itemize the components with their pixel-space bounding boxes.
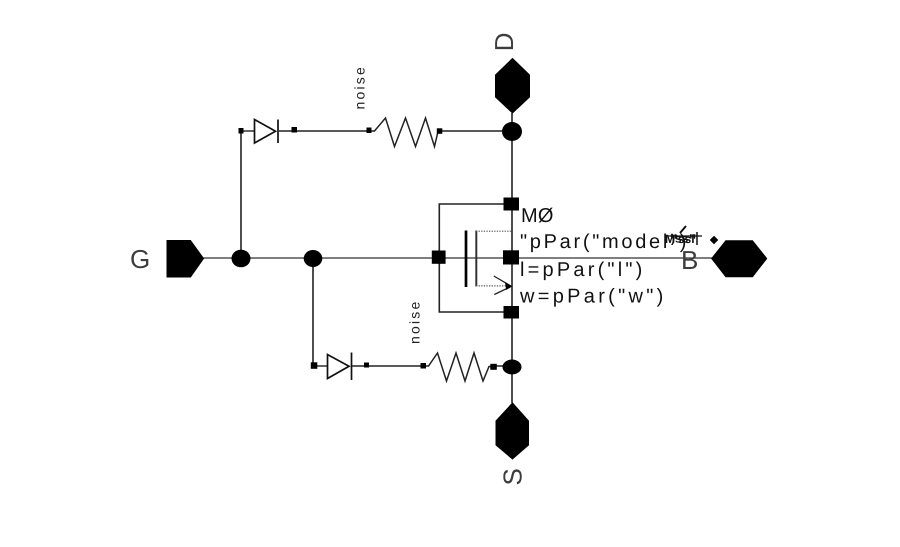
svg-text:)ss: )ss [671,232,689,246]
svg-text:D: D [489,32,519,51]
svg-text:l=pPar("l"): l=pPar("l") [520,259,646,281]
svg-text:noise: noise [352,65,368,109]
svg-text:w=pPar("w"): w=pPar("w") [519,286,667,308]
svg-text:G: G [130,244,150,274]
svg-text:noise: noise [407,300,423,344]
svg-text:MØ: MØ [521,205,554,227]
svg-text:S: S [498,468,528,485]
